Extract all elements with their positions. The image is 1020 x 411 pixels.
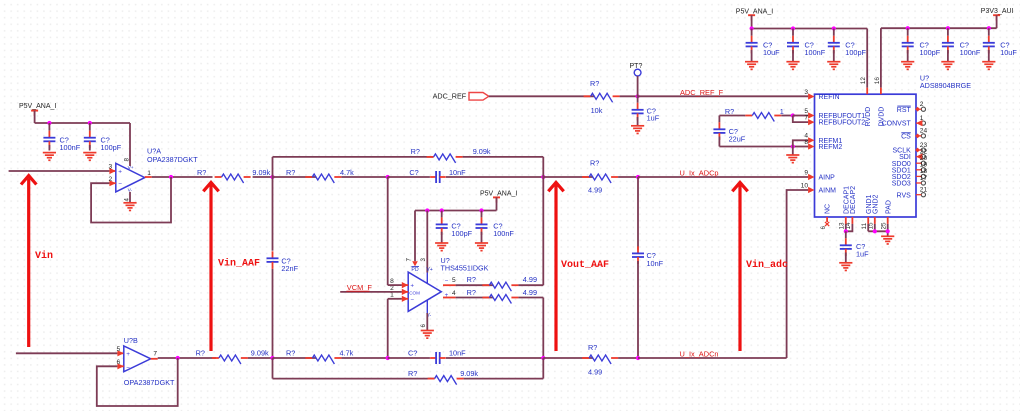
junction (541, 175, 545, 179)
wire DVDD rail (881, 28, 997, 87)
svg-text:DVDD: DVDD (879, 107, 886, 127)
svg-text:100pF: 100pF (451, 229, 472, 238)
wire to REFBUFOUT2 (793, 116, 808, 123)
resistor R? 1 (ref buffer) (719, 107, 792, 122)
capacitor C? 10nF (top feedback) (388, 168, 544, 183)
svg-text:10nF: 10nF (647, 259, 664, 268)
ground (982, 62, 995, 70)
svg-text:R?: R? (196, 348, 205, 357)
capacitor C? 10uF (DVDD bypass) (983, 28, 1018, 61)
svg-text:AINM: AINM (819, 188, 837, 195)
wire PAD pin (887, 217, 889, 236)
svg-text:REFIN: REFIN (819, 94, 840, 101)
power flag P3V3_AUI (ADC digital supply) (981, 8, 1014, 28)
wire GND pins (868, 217, 888, 231)
svg-text:V+: V+ (128, 165, 134, 171)
svg-text:OPA2387DGKT: OPA2387DGKT (147, 155, 198, 164)
svg-text:R?: R? (411, 147, 420, 156)
arrow Vin (21, 176, 53, 347)
svg-text:9.09k: 9.09k (252, 168, 270, 177)
op-amp U7A OPA2387DGKT (109, 147, 199, 202)
svg-text:REFM2: REFM2 (819, 144, 843, 151)
svg-text:4: 4 (452, 290, 456, 297)
svg-text:10nF: 10nF (449, 168, 466, 177)
arrow Vout_AAF (548, 182, 609, 351)
svg-text:100pF: 100pF (845, 48, 866, 57)
svg-text:REFBUFOUT2: REFBUFOUT2 (819, 120, 866, 127)
svg-text:OPA2387DGKT: OPA2387DGKT (124, 378, 175, 387)
svg-text:4.7k: 4.7k (340, 348, 354, 357)
junction (270, 175, 274, 179)
svg-text:−: − (118, 181, 122, 188)
svg-text:5: 5 (117, 346, 121, 353)
ground (475, 243, 488, 251)
junction (750, 26, 754, 30)
arrow Vin_AAF (203, 182, 260, 351)
op-amp U7B OPA2387DGKT (117, 336, 175, 387)
capacitor C? 100pF (THS bypass) (436, 211, 473, 243)
svg-text:PD: PD (411, 267, 418, 273)
svg-text:10uF: 10uF (763, 48, 780, 57)
resistor R? 9.09k (top input) (197, 168, 271, 183)
svg-text:10nF: 10nF (449, 348, 466, 357)
capacitor C? 100nF (RVDD bypass) (787, 29, 826, 62)
svg-text:R?: R? (588, 343, 597, 352)
svg-text:1uF: 1uF (647, 114, 660, 123)
svg-text:THS4551IDGK: THS4551IDGK (441, 264, 489, 273)
ground (881, 236, 894, 244)
svg-text:12: 12 (860, 77, 867, 85)
svg-text:1uF: 1uF (856, 249, 869, 258)
junction (270, 356, 274, 360)
ground (901, 62, 914, 70)
junction (636, 356, 640, 360)
net label U_Ix_ADCp (680, 168, 719, 177)
svg-text:4.99: 4.99 (523, 288, 537, 297)
resistor R? 4.99 (bottom output) (543, 343, 638, 376)
wire output up to top line (542, 177, 544, 285)
wire top feedback node (272, 157, 274, 177)
wire output down to bottom line (542, 298, 544, 359)
svg-text:SDO3: SDO3 (892, 181, 911, 188)
svg-text:R?: R? (467, 288, 476, 297)
svg-text:Vin_adc: Vin_adc (746, 259, 788, 271)
svg-text:U_Ix_ADCp: U_Ix_ADCp (680, 168, 719, 177)
svg-text:9.09k: 9.09k (251, 348, 269, 357)
wire (542, 358, 544, 379)
junction (541, 356, 545, 360)
svg-text:2: 2 (109, 176, 113, 183)
arrow Vin_adc (732, 182, 788, 351)
svg-text:ADS8904BRGE: ADS8904BRGE (920, 81, 971, 90)
svg-text:−: − (410, 296, 414, 303)
wire NC pin6 no-connect (825, 217, 829, 226)
port ADC_REF (433, 92, 489, 101)
svg-text:7: 7 (804, 115, 808, 122)
junction (425, 208, 429, 212)
wire U7A V- pin4 (129, 192, 131, 202)
power flag P5V_ANA_I (U7A supply) (19, 103, 56, 123)
svg-text:5: 5 (452, 277, 456, 284)
svg-text:R?: R? (725, 107, 734, 116)
wire THS +in pin8 (388, 177, 409, 285)
svg-text:R?: R? (590, 79, 599, 88)
wire (253, 176, 273, 178)
svg-text:RST: RST (897, 107, 912, 114)
wire Vin input to U7B pin5 (16, 352, 124, 354)
svg-text:VCM_F: VCM_F (347, 283, 373, 292)
junction (873, 229, 877, 233)
wire V- pin6 (426, 300, 428, 330)
svg-text:RVS: RVS (897, 192, 912, 199)
capacitor C? 22nF (differential) (267, 251, 299, 273)
capacitor C? 100nF (U7A bypass) (43, 123, 80, 152)
svg-text:4.7k: 4.7k (340, 168, 354, 177)
svg-text:P5V_ANA_I: P5V_ANA_I (19, 103, 56, 110)
wire to REFIN (638, 95, 809, 97)
svg-text:16: 16 (874, 77, 881, 85)
junction (844, 229, 848, 233)
junction (169, 175, 173, 179)
svg-text:AINP: AINP (819, 175, 836, 182)
svg-text:−: − (445, 278, 449, 285)
svg-text:9.09k: 9.09k (460, 369, 478, 378)
ground (827, 62, 840, 70)
junction (946, 26, 950, 30)
junction (636, 175, 640, 179)
resistor R? 10k (489, 79, 638, 115)
wire PD pin7 (412, 211, 418, 267)
svg-text:10uF: 10uF (1000, 48, 1017, 57)
svg-text:P3V3_AUI: P3V3_AUI (981, 8, 1014, 15)
svg-text:CS: CS (901, 134, 911, 141)
svg-text:100nF: 100nF (960, 48, 981, 57)
svg-text:Vout_AAF: Vout_AAF (561, 260, 609, 271)
wire U7B out row (158, 357, 216, 359)
svg-text:22nF: 22nF (281, 264, 298, 273)
resistor R? 4.99 (output pin4) (443, 288, 543, 304)
svg-text:4.99: 4.99 (588, 185, 602, 194)
wire bottom feedback node (272, 358, 274, 379)
svg-text:ADC_REF: ADC_REF (433, 92, 467, 101)
svg-text:9.09k: 9.09k (473, 147, 491, 156)
junction (176, 356, 180, 360)
wire REFM ground (792, 147, 794, 155)
resistor R? 9.09k (bottom feedback) (273, 369, 544, 385)
svg-text:8: 8 (123, 158, 130, 162)
svg-text:6: 6 (117, 359, 121, 366)
wire (272, 269, 274, 358)
junction (479, 208, 483, 212)
svg-text:ADC_REF_F: ADC_REF_F (680, 88, 724, 97)
wire to REFM2 (719, 146, 808, 148)
ground (123, 203, 136, 211)
svg-text:3: 3 (420, 258, 427, 262)
wire U7A output pin1 (145, 176, 213, 178)
svg-text:RVDD: RVDD (865, 107, 872, 127)
svg-text:7: 7 (406, 258, 413, 262)
svg-text:Vin: Vin (35, 250, 53, 262)
svg-text:P5V_ANA_I: P5V_ANA_I (480, 190, 517, 197)
wire (542, 157, 544, 177)
capacitor C? 100pF (U7A bypass) (84, 123, 122, 152)
wire to AINM (638, 190, 808, 358)
power flag P5V_ANA_I (ADC analog supply) (736, 8, 773, 28)
net label U_Ix_ADCn (680, 349, 719, 358)
wire THS supply rail (415, 210, 497, 212)
wire to REFBUFOUT1 (793, 115, 808, 117)
junction (47, 121, 51, 125)
svg-text:DECAP2: DECAP2 (850, 186, 857, 214)
svg-text:10k: 10k (591, 106, 603, 115)
wire V+ pin3 (426, 211, 428, 284)
svg-text:1: 1 (780, 107, 784, 116)
svg-text:100pF: 100pF (920, 48, 941, 57)
svg-text:R?: R? (467, 275, 476, 284)
svg-text:8: 8 (804, 139, 808, 146)
net label VCM_F (346, 283, 372, 292)
svg-text:+: + (126, 351, 130, 358)
svg-text:R?: R? (590, 159, 599, 168)
wire U7A feedback loop (91, 177, 171, 223)
junction (88, 121, 92, 125)
net label ADC_REF_F (680, 88, 724, 97)
svg-text:R?: R? (286, 168, 295, 177)
capacitor C? 100pF (DVDD bypass) (902, 28, 941, 61)
svg-text:100nF: 100nF (60, 143, 81, 152)
svg-text:22uF: 22uF (729, 134, 746, 143)
junction (791, 144, 795, 148)
IC U? ADS8904BRGE (801, 73, 972, 229)
ground (786, 62, 799, 70)
power flag P5V_ANA_I (THS4551 supply) (480, 190, 517, 210)
svg-text:PAD: PAD (885, 200, 892, 214)
resistor R? 4.7k (bottom) (273, 348, 388, 364)
svg-text:R?: R? (408, 369, 417, 378)
svg-text:4.99: 4.99 (588, 368, 602, 377)
capacitor C? 1uF (DECAP) (840, 231, 869, 262)
svg-text:3: 3 (109, 164, 113, 171)
ground (745, 62, 758, 70)
capacitor C? 22uF (ref buffer) (713, 116, 745, 147)
wire P5V rail to U7A (35, 123, 130, 166)
svg-text:3: 3 (804, 89, 808, 96)
wire Vin input to U7A pin3 (9, 170, 116, 172)
capacitor C? 100pF (RVDD bypass) (828, 29, 867, 62)
junction (791, 113, 795, 117)
capacitor C? 10nF (bottom feedback) (388, 348, 544, 364)
svg-text:NC: NC (825, 204, 832, 214)
resistor R? 9.09k (top feedback) (273, 147, 544, 163)
capacitor C? 1uF (ref filter) (632, 96, 660, 125)
wire THS -in pin1 (388, 299, 409, 358)
capacitor C? 100nF (DVDD bypass) (942, 28, 981, 61)
svg-text:25: 25 (881, 222, 888, 230)
svg-text:GND2: GND2 (872, 194, 879, 214)
junction (386, 356, 390, 360)
ground (43, 153, 56, 161)
svg-text:C?: C? (409, 168, 418, 177)
svg-text:+: + (410, 283, 414, 290)
ground (435, 243, 448, 251)
wire to AINP (638, 176, 808, 178)
svg-text:100pF: 100pF (101, 143, 122, 152)
svg-text:COM: COM (409, 290, 420, 295)
svg-text:R?: R? (197, 168, 206, 177)
svg-text:9: 9 (804, 169, 808, 176)
wire to REFM1 (793, 140, 808, 146)
wire U7B output pin7 (151, 358, 158, 360)
svg-text:−: − (126, 364, 130, 371)
resistor R? 9.09k (bottom input) (196, 348, 273, 364)
junction (791, 26, 795, 30)
junction (636, 94, 640, 98)
svg-text:U_Ix_ADCn: U_Ix_ADCn (680, 349, 719, 358)
junction (987, 26, 991, 30)
svg-text:Vin_AAF: Vin_AAF (218, 258, 260, 270)
junction (832, 26, 836, 30)
ground (83, 153, 96, 161)
svg-text:C?: C? (408, 348, 417, 357)
resistor R? 4.99 (top output) (543, 159, 638, 195)
capacitor C? 100nF (THS bypass) (476, 211, 515, 243)
svg-text:V+: V+ (426, 267, 433, 273)
resistor R? 4.99 (output pin5) (443, 275, 543, 291)
svg-text:CONVST: CONVST (882, 121, 912, 128)
svg-text:R?: R? (286, 348, 295, 357)
svg-text:+: + (118, 169, 122, 176)
svg-text:100nF: 100nF (805, 48, 826, 57)
ground (421, 331, 434, 339)
svg-text:100nF: 100nF (493, 229, 514, 238)
svg-text:U?B: U?B (124, 336, 138, 345)
capacitor C? 10nF (differential out) (632, 177, 664, 358)
wire RVDD rail (752, 29, 868, 88)
wire DECAP pins (846, 217, 853, 231)
wire left filter node vertical (272, 177, 274, 251)
capacitor C? 10uF (RVDD bypass) (746, 29, 781, 62)
test point PT? (630, 63, 643, 96)
junction (386, 175, 390, 179)
svg-text:6: 6 (420, 324, 427, 328)
wire U7B feedback loop (97, 358, 178, 406)
junction (440, 208, 444, 212)
svg-text:10: 10 (801, 182, 809, 189)
wire VCM_F to COM pin2 (340, 291, 408, 293)
ground (941, 62, 954, 70)
junction (906, 26, 910, 30)
ground (631, 126, 644, 134)
svg-text:4.99: 4.99 (523, 275, 537, 284)
fda U? THS4551IDGK (390, 256, 489, 328)
resistor R? 4.7k (top) (273, 168, 388, 183)
junction (886, 229, 890, 233)
ground (839, 263, 852, 271)
svg-text:7: 7 (153, 350, 157, 357)
ground (786, 155, 799, 163)
